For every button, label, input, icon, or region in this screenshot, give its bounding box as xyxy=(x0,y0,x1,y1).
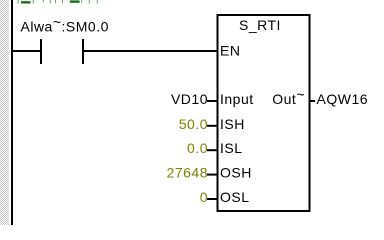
network comment fragment 5 xyxy=(50,0,51,4)
tick ISL xyxy=(207,149,217,151)
svg-text:S_RTI: S_RTI xyxy=(239,17,281,33)
svg-text:ISL: ISL xyxy=(220,140,243,156)
svg-text:50.0: 50.0 xyxy=(179,116,208,132)
tick OSH xyxy=(207,174,217,176)
svg-text:ISH: ISH xyxy=(220,116,245,132)
network comment fragment 11 xyxy=(97,0,98,4)
left gutter margin (dithered) xyxy=(0,0,9,225)
svg-text:0: 0 xyxy=(200,189,208,205)
svg-text:AQW16: AQW16 xyxy=(317,91,369,107)
network comment fragment 3 xyxy=(33,0,34,4)
contact right bar xyxy=(82,39,84,64)
wire rail to contact xyxy=(13,50,40,52)
tick OSL xyxy=(207,198,217,200)
network comment fragment 10 xyxy=(89,0,90,4)
power rail xyxy=(11,0,13,225)
tick ISH xyxy=(207,125,217,127)
svg-text:0.0: 0.0 xyxy=(187,140,208,156)
network comment fragment 9 xyxy=(81,0,82,3)
network comment fragment 4 xyxy=(43,0,44,2)
svg-text:VD10: VD10 xyxy=(171,91,208,107)
svg-text:OSH: OSH xyxy=(220,165,252,181)
tick Out xyxy=(311,100,316,102)
network comment fragment 8 xyxy=(70,0,80,2)
contact left bar xyxy=(40,39,42,64)
network comment fragment 1 xyxy=(18,0,19,4)
svg-text:EN: EN xyxy=(220,43,240,59)
svg-text:OSL: OSL xyxy=(220,189,250,205)
S_RTI block outline xyxy=(218,15,310,211)
svg-text:Input: Input xyxy=(220,91,254,107)
network comment fragment 2 xyxy=(21,1,31,3)
wire contact to block xyxy=(84,50,217,52)
network comment fragment 6 xyxy=(55,0,56,3)
svg-text:27648: 27648 xyxy=(167,165,208,181)
network comment fragment 7 xyxy=(62,0,63,3)
tick Input xyxy=(207,100,217,102)
